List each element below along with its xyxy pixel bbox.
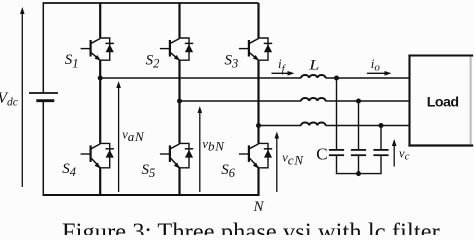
wire: phase c from inductor to load <box>325 125 409 127</box>
svg-text:vcN: vcN <box>282 151 304 168</box>
vaN reference arrow <box>116 81 121 192</box>
wire: phase c from inverter leg to filter inductor <box>259 125 302 127</box>
svg-text:S5: S5 <box>142 162 156 180</box>
wire: phase a from inductor to load <box>325 77 409 79</box>
transistor S3 (IGBT) <box>239 38 272 62</box>
node: phase b capacitor tap dot <box>356 99 361 104</box>
wire: phase a from inverter leg to filter inductor <box>100 77 301 79</box>
node phase b junction dot <box>177 99 182 104</box>
svg-text:S2: S2 <box>146 52 160 70</box>
wire: phase b from inverter leg to filter inductor <box>180 100 302 102</box>
wire: leg S1 collector to top bus <box>99 3 101 39</box>
vbN reference arrow <box>198 106 203 192</box>
svg-text:C: C <box>316 144 327 163</box>
svg-text:N: N <box>253 199 265 215</box>
if current arrow <box>272 71 295 76</box>
wire: bottom DC bus (node N rail) <box>43 194 260 196</box>
battery Vdc: negative plate <box>36 99 54 102</box>
transistor S5 (IGBT) <box>160 143 193 170</box>
wire: leg S2 emitter to S5 collector (phase node) <box>178 60 180 144</box>
vcN reference arrow <box>275 132 280 193</box>
wire: leg S2 collector to top bus <box>178 3 180 39</box>
capacitor C2 plates <box>351 150 366 155</box>
wire: top DC bus <box>43 2 259 4</box>
inductor L (phase b) <box>301 98 326 101</box>
wire: capacitor C2 branch from phase b node down <box>358 101 360 149</box>
svg-text:vbN: vbN <box>202 137 225 154</box>
wire: leg S3 emitter to S6 collector (phase node) <box>257 60 259 144</box>
battery Vdc: top lead wire <box>42 3 44 93</box>
svg-text:S1: S1 <box>65 52 79 70</box>
svg-text:io: io <box>371 56 381 74</box>
svg-text:vaN: vaN <box>122 128 145 145</box>
wire: capacitor C2 bottom lead <box>358 156 360 174</box>
svg-text:vc: vc <box>399 146 410 162</box>
node: phase c capacitor tap dot <box>379 123 384 128</box>
node: phase a capacitor tap dot <box>334 76 339 81</box>
inductor L (phase a) <box>301 75 326 78</box>
Vdc reference arrow <box>20 7 25 187</box>
io current arrow <box>367 71 392 76</box>
svg-text:if: if <box>278 56 287 75</box>
node phase c junction dot <box>256 123 261 128</box>
wire: leg S5 emitter to bottom bus <box>178 168 180 195</box>
wire: leg S6 emitter to bottom bus <box>257 168 259 195</box>
capacitor C3 plates <box>373 150 388 155</box>
vc reference arrow <box>392 139 397 167</box>
transistor S6 (IGBT) <box>239 143 272 170</box>
svg-text:Figure 3: Three phase vsi with: Figure 3: Three phase vsi with lc filter <box>62 219 440 235</box>
capacitor C1 plates <box>329 150 344 155</box>
battery Vdc: positive plate <box>29 92 58 94</box>
svg-text:Vdc: Vdc <box>0 90 18 109</box>
svg-text:S6: S6 <box>221 162 236 180</box>
wire: leg S4 emitter to bottom bus <box>99 168 101 195</box>
battery Vdc: bottom lead wire <box>42 101 44 196</box>
transistor S2 (IGBT) <box>160 38 193 62</box>
node phase a junction dot <box>98 76 103 81</box>
transistor S4 (IGBT) <box>81 143 114 170</box>
svg-text:S4: S4 <box>62 161 76 179</box>
node: capacitor neutral junction dot <box>356 171 361 176</box>
svg-text:Load: Load <box>427 94 459 110</box>
wire: capacitor neutral bus <box>336 173 382 175</box>
wire: leg S1 emitter to S4 collector (phase node) <box>99 60 101 144</box>
wire: capacitor C1 bottom lead <box>336 156 338 174</box>
wire: capacitor C3 branch from phase c node down <box>380 126 382 150</box>
svg-text:L: L <box>308 56 319 73</box>
wire: leg S3 collector to top bus <box>257 3 259 39</box>
wire: capacitor C3 bottom lead <box>380 156 382 174</box>
inductor L (phase c) <box>301 123 326 126</box>
wire: phase b from inductor to load <box>325 100 409 102</box>
load box <box>408 55 473 147</box>
transistor S1 (IGBT) <box>81 38 114 62</box>
wire: capacitor C1 branch from phase a node down <box>336 78 338 149</box>
svg-text:S3: S3 <box>225 52 239 70</box>
